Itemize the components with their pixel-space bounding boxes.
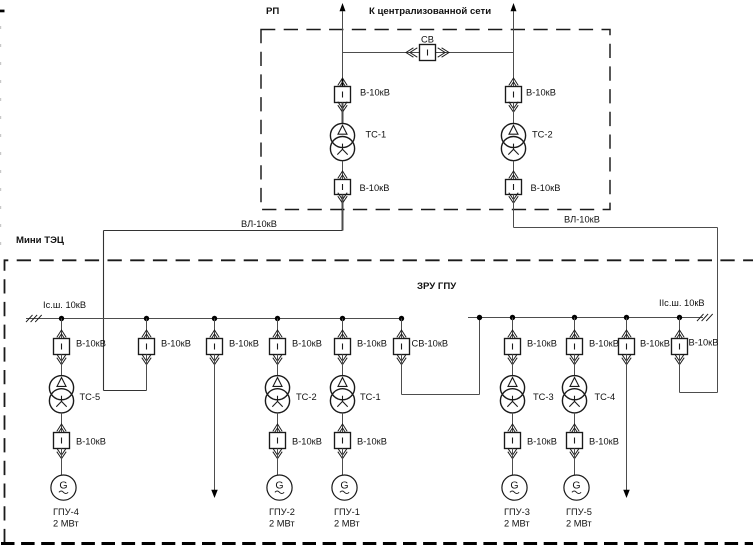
breaker СВ (tie breaker, РП) [406,45,449,61]
breaker В-10кВ (ГПУ-4 side) [54,424,70,459]
breaker СВ-10кВ (bus sectionalizer) [394,330,410,365]
generator ГПУ-2 2 МВт [267,475,292,500]
wire [61,355,63,376]
svg-text:В-10кВ: В-10кВ [589,437,619,447]
wire [679,355,681,393]
bus II section 10kV [468,317,703,319]
arrow outgoing feeder [211,490,218,498]
wire outgoing feeder [214,355,216,491]
label В-10кВ [360,88,390,98]
wire left feeder top [342,11,344,87]
svg-text:ГПУ-4: ГПУ-4 [53,507,79,517]
wire [512,355,514,376]
wire [342,413,344,433]
wire [342,161,344,180]
label В-10кВ [229,339,259,349]
breaker В-10кВ (outgoing feeder, bus I) [207,330,223,365]
wire [61,449,63,476]
label В-10кВ [357,437,387,447]
breaker В-10кВ (ГПУ-3 side) [505,424,521,459]
svg-text:2 МВт: 2 МВт [504,519,530,529]
svg-text:В-10кВ: В-10кВ [292,339,322,349]
wire (left feeder below lower breaker, heavy) [342,196,344,231]
wire [146,319,148,339]
wire left feeder down [342,195,344,231]
svg-text:Мини ТЭЦ: Мини ТЭЦ [16,235,64,246]
label В-10кВ [161,339,191,349]
frame: dashed boundary of Мини ТЭЦ (right side off-canvas) [1,260,753,543]
label ГПУ-3 [504,507,530,517]
wire СВ tie [343,52,514,54]
svg-text:В-10кВ: В-10кВ [589,339,619,349]
label IIс.ш. 10кВ [659,298,705,308]
generator ГПУ-1 2 МВт [332,475,357,500]
label В-10кВ [640,339,670,349]
label В-10кВ [360,183,390,193]
svg-text:G: G [275,479,283,491]
generator ГПУ-3 2 МВт [502,475,527,500]
transformer ТС-1 (РП) [330,123,354,160]
svg-text:В-10кВ: В-10кВ [531,183,561,193]
label РП [266,6,279,17]
generator ГПУ-4 2 МВт [51,475,76,500]
label 2 МВт [269,519,295,529]
breaker В-10кВ (ГПУ-1 side) [335,424,351,459]
svg-text:ГПУ-5: ГПУ-5 [566,507,592,517]
svg-text:В-10кВ: В-10кВ [640,339,670,349]
label 2 МВт [566,519,592,529]
svg-text:ТС-3: ТС-3 [533,392,554,402]
svg-text:2 МВт: 2 МВт [53,519,79,529]
svg-text:ВЛ-10кВ: ВЛ-10кВ [241,219,277,229]
svg-text:В-10кВ: В-10кВ [527,437,557,447]
breaker В-10кВ (incoming from РП ТС-2) [672,330,688,365]
wire [342,449,344,476]
label В-10кВ [76,437,106,447]
label В-10кВ [292,339,322,349]
wire [512,449,514,476]
wire right feeder top [513,11,515,87]
wire ВЛ-10кВ right riser [717,228,719,393]
breaker В-10кВ (ТС-5 branch, bus side) [54,330,70,365]
breaker В-10кВ (ТС-2 branch, bus side) [270,330,286,365]
node on bus II [624,315,629,320]
arrow to centralized network (left feeder) [340,3,346,11]
wire [277,355,279,376]
svg-text:G: G [510,479,518,491]
svg-text:В-10кВ: В-10кВ [526,88,556,98]
wire [146,355,148,391]
breaker В-10кВ (ГПУ-5 side) [567,424,583,459]
wire ВЛ-10кВ left to breaker [104,390,147,392]
label СВ-10кВ [412,339,449,349]
wire coupler down [401,355,403,395]
transformer ТС-3 [500,376,524,413]
label Мини ТЭЦ [16,235,64,246]
node on bus I [340,316,345,321]
svg-text:ЗРУ ГПУ: ЗРУ ГПУ [417,281,457,292]
wire ВЛ-10кВ right horizontal [514,227,718,229]
wire [342,319,344,339]
svg-text:Iс.ш. 10кВ: Iс.ш. 10кВ [43,300,86,310]
node on bus II [572,315,577,320]
breaker В-10кВ (ГПУ-2 side) [270,424,286,459]
bus I end hatch [26,315,42,322]
breaker В-10кВ (РП right, upper) [506,78,522,112]
breaker В-10кВ (РП left, lower) [335,171,351,203]
breaker В-10кВ (ТС-3 branch, bus side) [505,330,521,365]
wire ВЛ-10кВ right to breaker [680,392,718,394]
breaker В-10кВ (ТС-4 branch, bus side) [567,330,583,365]
svg-text:2 МВт: 2 МВт [566,519,592,529]
breaker В-10кВ (incoming from РП ТС-1) [139,330,155,365]
transformer ТС-2 [265,376,289,413]
transformer ТС-4 [562,376,586,413]
svg-text:В-10кВ: В-10кВ [161,339,191,349]
label ТС-2 [296,392,317,402]
svg-text:G: G [59,479,67,491]
bus I section 10kV [26,318,402,320]
wire ВЛ-10кВ left horizontal [104,230,343,232]
label В-10кВ [526,88,556,98]
generator ГПУ-5 2 МВт [564,475,589,500]
label ТС-2 [532,130,553,140]
svg-text:ГПУ-3: ГПУ-3 [504,507,530,517]
breaker В-10кВ (РП left, upper) [335,78,351,112]
wire [277,413,279,433]
bus II end hatch [697,314,713,321]
label ГПУ-5 [566,507,592,517]
label В-10кВ [527,437,557,447]
svg-text:К централизованной сети: К централизованной сети [369,6,491,17]
wire [574,318,576,339]
wire [679,318,681,339]
breaker В-10кВ (РП right, lower) [506,171,522,203]
wire [574,355,576,376]
svg-text:IIс.ш. 10кВ: IIс.ш. 10кВ [659,298,705,308]
label В-10кВ [589,339,619,349]
label ТС-5 [80,392,101,402]
svg-text:В-10кВ: В-10кВ [357,437,387,447]
transformer ТС-1 [330,376,354,413]
svg-text:В-10кВ: В-10кВ [76,437,106,447]
wire [277,449,279,476]
node on bus II [677,315,682,320]
svg-text:В-10кВ: В-10кВ [292,437,322,447]
label 2 МВт [334,519,360,529]
node on bus I [144,316,149,321]
wire coupler up to bus II [479,318,481,395]
label В-10кВ [76,339,106,349]
svg-text:ТС-4: ТС-4 [595,392,616,402]
tick mark top-left edge [0,10,5,13]
label СВ [421,35,434,45]
svg-text:СВ-10кВ: СВ-10кВ [412,339,449,349]
label ЗРУ ГПУ [417,281,457,292]
wire [512,413,514,433]
wire [61,319,63,339]
node on bus I [212,316,217,321]
node on bus II [510,315,515,320]
label ТС-1 [360,392,381,402]
label ГПУ-2 [269,507,295,517]
wire [574,413,576,433]
svg-text:В-10кВ: В-10кВ [360,183,390,193]
label ТС-4 [595,392,616,402]
wire [61,413,63,433]
label В-10кВ [589,437,619,447]
svg-text:ТС-1: ТС-1 [366,130,387,140]
svg-text:ТС-2: ТС-2 [532,130,553,140]
wire [401,319,403,339]
label ГПУ-1 [334,507,360,517]
svg-text:В-10кВ: В-10кВ [689,338,719,348]
wire [342,355,344,376]
wire [214,319,216,339]
svg-text:РП: РП [266,6,279,17]
label ТС-1 [366,130,387,140]
label ГПУ-4 [53,507,79,517]
arrow outgoing feeder [623,490,630,498]
wire [513,161,515,180]
node on bus I [399,316,404,321]
svg-text:В-10кВ: В-10кВ [76,339,106,349]
label 2 МВт [504,519,530,529]
node on bus II [477,315,482,320]
label В-10кВ [689,338,719,348]
svg-text:G: G [572,479,580,491]
label В-10кВ [292,437,322,447]
breaker В-10кВ (ТС-1 branch, bus side) [335,330,351,365]
svg-text:В-10кВ: В-10кВ [527,339,557,349]
label В-10кВ [357,339,387,349]
wire [512,318,514,339]
label В-10кВ [527,339,557,349]
label К централизованной сети [369,6,491,17]
svg-text:В-10кВ: В-10кВ [229,339,259,349]
faint clipped frame ticks, left edge [0,26,2,258]
label ТС-3 [533,392,554,402]
label 2 МВт [53,519,79,529]
transformer ТС-2 (РП) [501,123,525,160]
svg-text:ТС-2: ТС-2 [296,392,317,402]
wire outgoing feeder [626,355,628,491]
frame: dashed boundary of РП switchgear [261,30,610,210]
node on bus I [275,316,280,321]
transformer ТС-5 [49,376,73,413]
svg-text:2 МВт: 2 МВт [334,519,360,529]
svg-text:СВ: СВ [421,35,434,45]
wire [513,103,515,124]
svg-text:В-10кВ: В-10кВ [360,88,390,98]
label ВЛ-10кВ (right line) [564,215,600,225]
wire [574,449,576,476]
wire ВЛ-10кВ left riser [103,231,105,391]
label ВЛ-10кВ (left line) [241,219,277,229]
node on bus I [59,316,64,321]
arrow to centralized network (right feeder) [511,3,517,11]
svg-text:ТС-1: ТС-1 [360,392,381,402]
svg-text:ГПУ-2: ГПУ-2 [269,507,295,517]
wire right feeder down [513,195,515,228]
wire (left feeder through upper breaker, heavy) [342,79,344,124]
breaker В-10кВ (outgoing feeder, bus II) [619,330,635,365]
svg-text:В-10кВ: В-10кВ [357,339,387,349]
svg-text:ВЛ-10кВ: ВЛ-10кВ [564,215,600,225]
svg-text:ГПУ-1: ГПУ-1 [334,507,360,517]
wire [342,103,344,124]
svg-text:G: G [340,479,348,491]
svg-text:2 МВт: 2 МВт [269,519,295,529]
svg-text:ТС-5: ТС-5 [80,392,101,402]
label В-10кВ [531,183,561,193]
wire [626,318,628,339]
wire coupler across [402,394,480,396]
label Iс.ш. 10кВ [43,300,86,310]
wire [277,319,279,339]
